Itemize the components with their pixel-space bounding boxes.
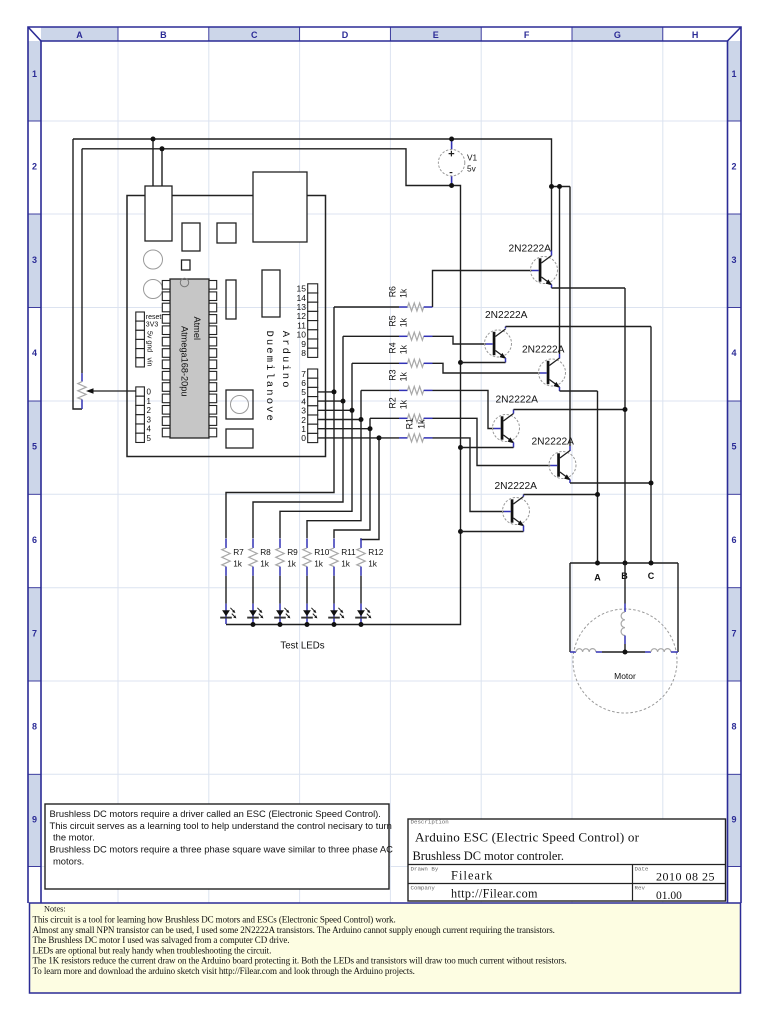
svg-text:Company: Company xyxy=(411,885,436,892)
wire: Q4 emitter to return rail xyxy=(513,443,515,448)
svg-text:6: 6 xyxy=(32,535,37,545)
svg-text:R2: R2 xyxy=(387,397,397,408)
resistor R7 1k (LED ladder) xyxy=(222,539,244,576)
wire: Q1 collector blue stub xyxy=(551,251,553,256)
wire: vertical riser x=334 xyxy=(226,307,334,538)
svg-text:9: 9 xyxy=(32,814,37,824)
svg-text:1k: 1k xyxy=(233,558,243,568)
reset button xyxy=(226,390,253,419)
svg-text:5: 5 xyxy=(147,434,152,443)
svg-text:motors.: motors. xyxy=(53,856,84,867)
svg-text:Atmega168-20pu: Atmega168-20pu xyxy=(180,326,190,397)
resistor R11 1k (LED ladder) xyxy=(330,539,356,576)
junction: phase joins xyxy=(623,407,628,412)
wire: Q4 collector to phase B xyxy=(513,410,515,414)
wire: vertical riser x=352 xyxy=(280,363,352,538)
svg-text:Date: Date xyxy=(635,866,649,873)
description text box xyxy=(45,804,393,889)
junction: rail/stub xyxy=(549,184,554,189)
junction: pin 3 xyxy=(350,408,355,413)
wire: R1 row (pin0) xyxy=(379,437,399,439)
wire: digital pin 3 to resistor ladder xyxy=(318,409,352,411)
svg-text:H: H xyxy=(692,30,699,40)
svg-text:8: 8 xyxy=(32,722,37,732)
wire: vertical riser x=343 xyxy=(253,336,343,538)
resistor R2 1k xyxy=(387,397,432,422)
wire: Q5 collector riser xyxy=(569,187,571,447)
svg-text:7: 7 xyxy=(731,628,736,638)
svg-text:vin: vin xyxy=(146,358,153,367)
Arduino Duemilanove board outline xyxy=(127,196,326,457)
wire: R6 to Q1 base xyxy=(433,271,532,308)
transistor Q1 2N2222A xyxy=(509,244,558,286)
wire: R4 to Q3 base xyxy=(433,363,540,373)
svg-text:C: C xyxy=(648,571,655,581)
svg-text:R1: R1 xyxy=(404,418,414,429)
svg-text:2: 2 xyxy=(731,162,736,172)
svg-text:5: 5 xyxy=(32,442,37,452)
small component square xyxy=(217,223,236,243)
svg-text:1k: 1k xyxy=(398,372,408,382)
junction: pin 0 xyxy=(377,435,382,440)
LED D5 xyxy=(328,576,344,624)
svg-text:Atmel: Atmel xyxy=(192,317,202,341)
wire: digital pin 5 to resistor ladder xyxy=(318,391,334,393)
wire: Q5 emitter to phase C xyxy=(569,480,571,484)
mounting hole xyxy=(144,250,163,269)
sheet frame: border lines xyxy=(28,27,741,903)
resistor R1 1k xyxy=(399,418,433,442)
left header: analog 0-5 xyxy=(136,387,152,443)
svg-text:3: 3 xyxy=(731,255,736,265)
svg-text:1k: 1k xyxy=(398,344,408,354)
mounting hole xyxy=(144,280,163,299)
svg-text:Motor: Motor xyxy=(614,671,636,681)
svg-text:Arduino ESC (Electric Speed Co: Arduino ESC (Electric Speed Control) or xyxy=(415,830,640,845)
svg-text:R12: R12 xyxy=(368,547,384,557)
svg-text:2: 2 xyxy=(32,162,37,172)
svg-text:A: A xyxy=(76,30,83,40)
LED D1 xyxy=(220,576,236,624)
svg-text:2N2222A: 2N2222A xyxy=(496,395,539,406)
wire: Q6 collector to phase A xyxy=(523,495,525,497)
junction: pin 5 xyxy=(332,389,337,394)
svg-text:D: D xyxy=(342,30,349,40)
svg-text:The 1K resistors reduce the cu: The 1K resistors reduce the current draw… xyxy=(33,956,567,966)
regulator block xyxy=(182,223,200,251)
sheet frame: margin band fills xyxy=(28,27,741,867)
sheet frame: column letters and row numbers xyxy=(32,30,737,825)
svg-text:5: 5 xyxy=(731,442,736,452)
junction: pin 4 xyxy=(341,399,346,404)
svg-text:Rev: Rev xyxy=(635,885,646,892)
wire: digital pin 4 to resistor ladder xyxy=(318,400,343,402)
junction: LED on ground rail xyxy=(251,622,256,627)
svg-text:Brushless DC motor controler.: Brushless DC motor controler. xyxy=(413,849,564,863)
svg-text:R3: R3 xyxy=(387,369,397,380)
wire: Q3 collector riser xyxy=(559,187,561,355)
svg-text:the motor.: the motor. xyxy=(53,832,95,843)
transistor Q3 2N2222A xyxy=(522,345,566,388)
svg-text:Arduino: Arduino xyxy=(279,331,291,390)
resistor R9 1k (LED ladder) xyxy=(276,539,298,576)
wire: power jack feeds xyxy=(152,139,154,186)
IC U1: Atmel Atmega168-20pu xyxy=(162,278,216,438)
svg-text:01.00: 01.00 xyxy=(656,890,682,902)
svg-text:This circuit serves as a learn: This circuit serves as a learning tool t… xyxy=(50,820,392,831)
svg-text:LEDs are optional but realy ha: LEDs are optional but realy handy when t… xyxy=(33,945,272,955)
wire: Q2 collector to phase C xyxy=(505,327,507,329)
wire: phase B vertical xyxy=(624,288,626,563)
wire: vertical riser x=379 xyxy=(361,438,379,540)
right header: pins 15-8 xyxy=(297,284,318,358)
svg-text:1k: 1k xyxy=(398,317,408,327)
svg-text:Duemilanove: Duemilanove xyxy=(263,331,275,423)
svg-text:B: B xyxy=(160,30,167,40)
svg-text:1k: 1k xyxy=(260,558,270,568)
svg-text:1k: 1k xyxy=(398,399,408,409)
svg-text:5v: 5v xyxy=(467,164,477,174)
svg-text:To learn more and download the: To learn more and download the arduino s… xyxy=(33,966,415,976)
resistor R5 1k xyxy=(387,315,432,340)
wire: left outer rail to potentiometer bottom xyxy=(73,139,82,409)
svg-text:1k: 1k xyxy=(287,558,297,568)
svg-text:V1: V1 xyxy=(467,153,478,163)
junction: motor terminals A B C xyxy=(595,561,600,566)
svg-text:1k: 1k xyxy=(416,419,426,429)
svg-text:3V3: 3V3 xyxy=(146,322,159,329)
svg-text:R7: R7 xyxy=(233,547,244,557)
wire: R3 to Q4 base xyxy=(433,390,494,428)
svg-text:Brushless DC motors require a: Brushless DC motors require a three phas… xyxy=(50,844,394,855)
transistor Q5 2N2222A xyxy=(532,437,577,481)
junction: LED on ground rail xyxy=(359,622,364,627)
potentiometer (across supply, wiper to analog 0) xyxy=(78,373,136,409)
wire: R5 to Q2 base xyxy=(433,336,486,344)
junction: LED on ground rail xyxy=(278,622,283,627)
crystal block xyxy=(262,270,280,317)
transistor Q2 2N2222A xyxy=(485,310,528,359)
svg-text:Test LEDs: Test LEDs xyxy=(280,641,324,652)
svg-text:http://Filear.com: http://Filear.com xyxy=(451,887,538,901)
svg-text:This circuit is a tool for lea: This circuit is a tool for learning how … xyxy=(33,915,396,925)
svg-text:2N2222A: 2N2222A xyxy=(522,345,565,356)
resistor R12 1k (LED ladder) xyxy=(357,539,384,576)
svg-text:2N2222A: 2N2222A xyxy=(509,244,552,255)
svg-text:E: E xyxy=(433,30,439,40)
junction: pin 2 xyxy=(359,417,364,422)
svg-text:1: 1 xyxy=(147,397,152,406)
svg-text:9: 9 xyxy=(731,814,736,824)
svg-text:reset: reset xyxy=(146,314,162,321)
svg-text:R4: R4 xyxy=(387,342,397,353)
svg-text:3: 3 xyxy=(32,255,37,265)
resistor R10 1k (LED ladder) xyxy=(303,539,330,576)
svg-text:2N2222A: 2N2222A xyxy=(485,310,528,321)
wire: digital pin 0 to resistor ladder xyxy=(318,437,379,439)
resistor R4 1k xyxy=(387,342,432,367)
resistor R8 1k (LED ladder) xyxy=(249,539,271,576)
wire: Q1 emitter to phase B xyxy=(551,285,553,289)
svg-text:Description: Description xyxy=(411,819,449,826)
svg-text:2010 08 25: 2010 08 25 xyxy=(656,870,715,884)
small part xyxy=(182,260,191,270)
wire: phase C vertical xyxy=(650,327,652,564)
svg-text:A: A xyxy=(594,573,601,583)
svg-text:7: 7 xyxy=(32,628,37,638)
svg-text:3: 3 xyxy=(147,415,152,424)
wire: Q2 emitter to return rail xyxy=(505,358,507,363)
svg-text:R5: R5 xyxy=(387,315,397,326)
wire: digital pin 1 to resistor ladder xyxy=(318,428,370,430)
svg-text:4: 4 xyxy=(147,425,152,434)
resistor R3 1k xyxy=(387,369,432,394)
svg-text:8: 8 xyxy=(301,348,306,358)
svg-text:6: 6 xyxy=(731,535,736,545)
motor M1 (brushless DC, 3 windings) xyxy=(570,563,678,713)
svg-text:1k: 1k xyxy=(314,558,324,568)
svg-text:Brushless DC motors require a: Brushless DC motors require a driver cal… xyxy=(50,808,381,819)
left header: reset/3V3/5v/gnd/vin xyxy=(136,312,162,367)
wire: R5 row xyxy=(343,335,399,337)
svg-text:R9: R9 xyxy=(287,547,298,557)
transistor Q6 2N2222A xyxy=(495,481,538,526)
svg-text:1k: 1k xyxy=(398,288,408,298)
wire: R2 row xyxy=(370,417,399,419)
wire: digital pin 2 to resistor ladder xyxy=(318,419,361,421)
svg-text:F: F xyxy=(524,30,530,40)
svg-text:0: 0 xyxy=(301,433,306,443)
svg-text:Almost any small NPN transisto: Almost any small NPN transistor can be u… xyxy=(33,925,555,935)
junction: LED on ground rail xyxy=(305,622,310,627)
svg-text:Fileark: Fileark xyxy=(451,869,494,883)
svg-text:The Brushless DC motor I used: The Brushless DC motor I used was salvag… xyxy=(33,935,290,945)
svg-text:1: 1 xyxy=(731,69,736,79)
wire: R3 row xyxy=(361,389,399,391)
svg-text:1k: 1k xyxy=(368,558,378,568)
junction: V1 on rails xyxy=(449,137,454,142)
svg-text:2: 2 xyxy=(147,406,152,415)
wire: phase A vertical xyxy=(597,391,599,563)
wire: left inner rail to potentiometer top xyxy=(81,149,83,373)
USB connector xyxy=(253,172,307,242)
junction: Q2/Q4/Q6 emitters on return rail xyxy=(458,360,463,365)
svg-text:R8: R8 xyxy=(260,547,271,557)
wire: R4 row xyxy=(352,362,399,364)
svg-text:G: G xyxy=(614,30,621,40)
LED D3 xyxy=(274,576,290,624)
wire: +5V top rail (V1+ to Q1/Q3/Q5 collectors) xyxy=(73,139,552,251)
LED D2 xyxy=(247,576,263,624)
svg-text:R10: R10 xyxy=(314,547,330,557)
wire: vertical riser x=361 xyxy=(307,390,361,538)
svg-text:1k: 1k xyxy=(341,558,351,568)
motor terminals bus xyxy=(570,563,678,652)
LED D4 xyxy=(301,576,317,624)
title block xyxy=(408,819,726,903)
wire: vertical riser x=370 xyxy=(334,418,370,538)
junction: pin 1 xyxy=(368,426,373,431)
notes strip xyxy=(30,903,741,993)
capacitor block xyxy=(226,280,236,319)
drawing area faint gridlines xyxy=(41,41,728,903)
wire: Q3 emitter to phase A xyxy=(559,387,561,391)
svg-text:5v: 5v xyxy=(146,331,153,339)
voltage source V1 5v xyxy=(438,139,477,186)
power jack xyxy=(145,186,172,241)
wire: V1- return rail (left loop, down to LED rail) xyxy=(82,149,461,625)
svg-text:4: 4 xyxy=(731,348,736,358)
right header: pins 7-0 xyxy=(301,369,317,443)
wire: R6 row to pin5 riser xyxy=(334,306,399,308)
svg-text:0: 0 xyxy=(147,388,152,397)
svg-text:Notes:: Notes: xyxy=(44,905,66,914)
junction: LED on ground rail xyxy=(332,622,337,627)
svg-text:gnd: gnd xyxy=(146,341,153,353)
svg-text:R6: R6 xyxy=(387,286,397,297)
wire: Q6 emitter to return rail xyxy=(523,526,525,532)
wire: R2 to Q5 base xyxy=(433,418,551,465)
svg-text:4: 4 xyxy=(32,348,37,358)
svg-text:R11: R11 xyxy=(341,547,356,557)
svg-text:C: C xyxy=(251,30,258,40)
svg-text:Drawn By: Drawn By xyxy=(411,866,439,873)
svg-text:2N2222A: 2N2222A xyxy=(495,481,538,492)
svg-text:8: 8 xyxy=(731,722,736,732)
transistor Q4 2N2222A xyxy=(493,395,539,444)
svg-text:1: 1 xyxy=(32,69,37,79)
wire: R1 to Q6 base xyxy=(433,438,504,512)
ICSP block xyxy=(226,429,253,448)
LED D6 xyxy=(355,576,371,624)
wire: collector feed stub at y=186.5 xyxy=(552,186,571,188)
resistor R6 1k xyxy=(387,286,432,311)
junction: jack feeds on rails xyxy=(151,137,156,142)
svg-text:2N2222A: 2N2222A xyxy=(532,437,575,448)
